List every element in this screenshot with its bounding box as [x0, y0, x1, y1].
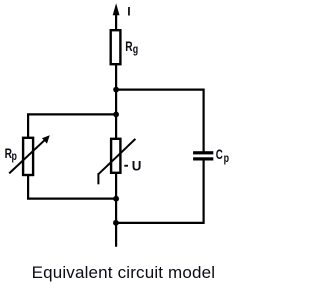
- wire main vertical (Rg bottom to varistor top): [115, 64, 117, 139]
- svg-text:R: R: [125, 38, 132, 54]
- node A (top junction to Cp): [113, 87, 119, 93]
- svg-text:U: U: [132, 158, 142, 173]
- label Rg: [125, 38, 138, 56]
- svg-text:Equivalent circuit model: Equivalent circuit model: [32, 263, 216, 282]
- current arrow I: [113, 3, 120, 30]
- wire bottom-right from capacitor branch: [116, 160, 204, 223]
- capacitor C1 (Cp) plates: [193, 151, 213, 160]
- label Cp: [216, 146, 230, 165]
- wire bottom-left from Rp branch: [28, 174, 116, 199]
- node B (junction to Rp): [113, 112, 119, 118]
- wire top-right to capacitor branch: [116, 90, 204, 152]
- svg-text:I: I: [127, 5, 130, 19]
- svg-text:g: g: [133, 43, 138, 57]
- resistor R1 (Rg): [111, 30, 121, 64]
- svg-text:p: p: [12, 150, 18, 164]
- varistor U (VDR): [98, 139, 135, 185]
- label -U: [124, 158, 141, 173]
- resistor R2 (Rp, variable): [9, 135, 50, 175]
- svg-text:p: p: [224, 152, 230, 166]
- label Rp: [5, 145, 18, 163]
- svg-text:C: C: [216, 146, 223, 162]
- node D (bottom junction to Cp): [113, 220, 119, 226]
- wire main vertical (varistor bottom to end): [115, 173, 117, 247]
- wire top-left to Rp branch: [28, 114, 116, 138]
- node C (bottom junction from Rp): [113, 196, 119, 202]
